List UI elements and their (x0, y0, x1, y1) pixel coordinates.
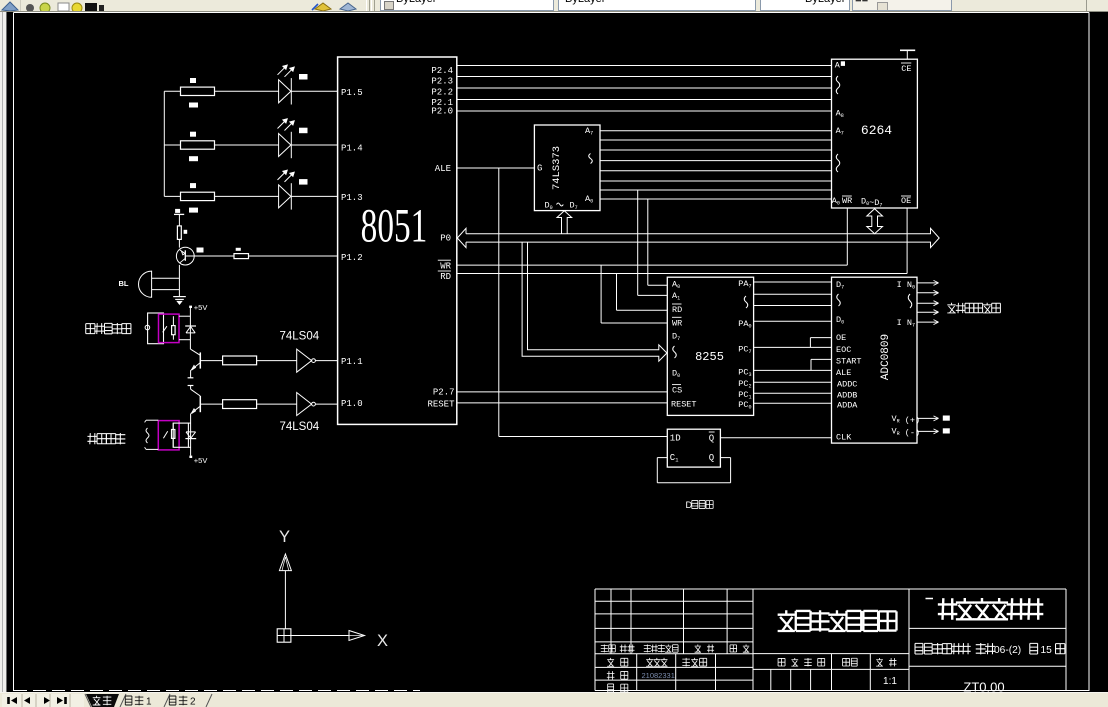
K2 left stub bottom (146, 448, 158, 450)
UCS icon Y axis arrow (279, 554, 291, 571)
wire K2 top (188, 422, 190, 424)
P0 data bus double line (466, 233, 931, 235)
Q3 collector lead (190, 386, 192, 390)
title block left table verticals upper (610, 589, 612, 654)
U5 squiggle D7..D0 (837, 294, 841, 306)
Q3 base bar (199, 396, 201, 412)
wire P2.0 from U1 to U3 (457, 110, 832, 112)
wire analog input IN0 (917, 282, 939, 284)
wire PA7-D7 U4 to U5 (754, 281, 832, 283)
wire PC3 to U5 ALE (754, 369, 832, 371)
K2 coil resistor (172, 430, 175, 439)
svg-text:P2.4: P2.4 (431, 66, 453, 76)
svg-text:RD: RD (440, 272, 451, 282)
UCS icon X axis arrow (291, 635, 349, 637)
wire ALE branch down to U6 1D (498, 168, 500, 437)
LED D3 cathode bar (290, 183, 292, 209)
wire P2.7 to U4 CS (457, 391, 667, 393)
university section lines (909, 627, 1066, 629)
U3 squiggle A12..A8 (836, 76, 840, 94)
buzzer BL body (139, 271, 152, 297)
LED D3 triangle (279, 185, 291, 208)
wire PC0 to U5 ADDA (754, 402, 832, 404)
wire R6 to inverter U7A (257, 360, 297, 362)
resistor R3 value label below (189, 208, 198, 213)
P0 bus arrowhead right end (931, 228, 940, 247)
middle section lines (753, 653, 909, 655)
drawing title duandai jiance yuanlitu (chinese) (778, 610, 795, 631)
university name China University of Mining and Technology (chinese) (938, 598, 957, 620)
resistor R2 (181, 141, 215, 149)
transistor Q2 collector lead (190, 349, 200, 355)
left toolbar sliver (0, 11, 7, 692)
ground symbol (173, 296, 186, 298)
svg-text:15: 15 (1038, 645, 1052, 656)
+5V node for relay K1 (189, 306, 192, 308)
wire A4 from U2 latch to U3 (600, 160, 832, 162)
rail Q3 emitter to +5V (190, 414, 192, 456)
svg-text:VR (+): VR (+) (892, 414, 921, 426)
U2 tilde D0..D7 (557, 203, 564, 206)
resistor R6 (223, 356, 257, 365)
LED D2 emission arrows (278, 120, 294, 131)
svg-text:74LS04: 74LS04 (280, 331, 320, 343)
resistor R1 value label (190, 78, 196, 83)
svg-text:P2.0: P2.0 (431, 107, 453, 117)
wire Q1 base to R5 (185, 255, 234, 257)
parallel interface U4 8255 body (667, 277, 753, 415)
svg-text:BL: BL (119, 279, 129, 288)
wire RD into U4 (617, 309, 668, 311)
D flip-flop U6 body (667, 429, 720, 467)
wire R2 to LED D2 (215, 144, 279, 146)
U3 squiggle A7..A0 (836, 154, 840, 172)
svg-text:CS: CS (672, 386, 682, 396)
svg-text:1:1: 1:1 (883, 676, 897, 687)
U4 squiggle D7..D0 (673, 346, 677, 358)
wire P2.3 from U1 to U3 (457, 76, 832, 78)
overbar before university name (926, 598, 934, 600)
svg-text:1: 1 (146, 696, 152, 707)
svg-text:P1.3: P1.3 (341, 193, 363, 203)
K1 coil resistor (172, 326, 176, 335)
resistor R5 (234, 254, 249, 259)
bus arrow from P0 down into U4 D0-D7 (522, 242, 667, 361)
svg-text:START: START (836, 357, 862, 367)
wire A0 into U4 (648, 284, 668, 286)
svg-text:P1.0: P1.0 (341, 399, 363, 409)
svg-text:8051: 8051 (361, 200, 428, 252)
wire analog input IN7 (917, 321, 939, 323)
svg-text:WR: WR (440, 262, 451, 272)
Q2 emitter lead with arrow (191, 363, 200, 371)
U7B output bubble (312, 402, 316, 406)
R4 value label (184, 230, 188, 234)
row label standardization (chinese) (682, 658, 690, 667)
K2 contact switch (163, 431, 167, 438)
wire RD from U1 (457, 273, 907, 275)
wire PA4-D4 U4 to U5 (754, 293, 832, 295)
flyback diode D5 (185, 438, 196, 440)
svg-text:1D: 1D (670, 434, 681, 444)
Q3 emitter lead with arrow (191, 406, 200, 413)
LED D1 triangle (279, 80, 291, 103)
VCC pull-up on U3 CE (900, 49, 915, 51)
LED D1 designator label (299, 74, 308, 80)
bus arrow from P0 up into U2 D0-D7 (557, 211, 572, 234)
wire WR into U4 (601, 322, 667, 324)
UCS icon origin box (277, 629, 291, 642)
svg-text:21082331: 21082331 (642, 671, 675, 680)
flyback diode D4 (185, 325, 196, 327)
wire analog input IN2 (917, 302, 939, 304)
svg-text:A: A (835, 61, 841, 71)
LED D1 cathode bar (290, 78, 292, 104)
header label change-file-name (chinese) (644, 644, 651, 652)
wire P2.4 from U1 to U3 (457, 65, 832, 67)
svg-text:Q: Q (709, 453, 714, 463)
+5V terminal above R4 (175, 209, 180, 213)
svg-text:X: X (377, 632, 388, 650)
svg-text:6264: 6264 (861, 123, 892, 138)
svg-text:WR: WR (842, 196, 852, 206)
header label biaoji (chinese) (601, 644, 608, 652)
wire K1 bottom to Q2 collector rail (179, 339, 190, 341)
LED D3 emission arrows (278, 171, 294, 182)
wire to resistor R3 (164, 195, 180, 197)
wire branch to U5 OE (809, 338, 811, 348)
wire A0 from U2 latch to U3 (600, 198, 832, 200)
resistor R4 (vertical) (177, 226, 181, 240)
wire A0 tap down (647, 199, 649, 285)
drawing frame top line (14, 12, 1090, 14)
svg-text:CE: CE (901, 64, 911, 74)
wire R3 to LED D3 (215, 195, 279, 197)
LED D2 cathode bar (290, 132, 292, 158)
resistor R7 (223, 400, 257, 409)
relay K1 contact box (148, 313, 164, 344)
title block main dividers (752, 589, 754, 691)
drawing frame left line (13, 13, 15, 692)
college and class line (chinese) (915, 643, 923, 654)
svg-text:P1.5: P1.5 (341, 88, 363, 98)
wire PA3-D3 U4 to U5 (754, 305, 832, 307)
header label chushu (chinese) (620, 645, 627, 653)
ADC U5 ADC0809 body (832, 277, 918, 443)
svg-text:Q: Q (709, 434, 714, 444)
wire buzzer bottom terminal (152, 289, 180, 291)
wire VR- reference (917, 430, 939, 432)
svg-text:+5V: +5V (194, 303, 208, 312)
wire U6 C1 stub (657, 457, 667, 459)
wire ALE from U1 to U2 G (457, 167, 534, 169)
wire buzzer top terminal (152, 277, 180, 279)
P0 bus arrowhead at U1 (457, 228, 466, 247)
U7A output bubble (312, 359, 316, 363)
common bus of LED resistors (163, 91, 165, 196)
wire R4 to Q1 collector (178, 239, 180, 247)
svg-text:ADC0809: ADC0809 (880, 334, 892, 380)
svg-text:Y: Y (279, 528, 290, 546)
wire K2 bottom (188, 446, 190, 448)
inverter U7B 74LS04 triangle (297, 393, 312, 416)
wire WR from U1 (457, 264, 847, 266)
wire into U6 1D (499, 436, 668, 438)
relay K2 coil box (magenta) (158, 421, 179, 450)
svg-text:P2.3: P2.3 (431, 77, 453, 87)
row label sheji design (chinese) (607, 658, 614, 666)
svg-text:P1.4: P1.4 (341, 144, 363, 154)
LED D1 emission arrows (278, 66, 294, 77)
U2 squiggle A7..A0 (589, 154, 593, 164)
wire to resistor R2 (164, 144, 180, 146)
wire A6 from U2 latch to U3 (600, 139, 832, 141)
wire R1 to LED D1 (215, 90, 279, 92)
svg-text:P1.2: P1.2 (341, 253, 363, 263)
wire R7 to inverter U7B (257, 403, 297, 405)
wire WR tap down to U4 (600, 265, 602, 323)
wire branch to U5 START (810, 359, 812, 370)
wire PC7 to U5 EOC (754, 346, 832, 348)
wire LED D2 to U1 P1.4 (291, 144, 337, 146)
K2 left stub top (146, 419, 158, 421)
resistor R3 value label (190, 183, 196, 188)
Q2 base bar (199, 352, 201, 368)
resistor R3 (181, 192, 215, 200)
bottom model/layout tab bar (0, 692, 1108, 707)
SRAM U3 6264 body (832, 59, 918, 208)
resistor R2 value label (190, 132, 196, 137)
header label qianzi (chinese) (695, 644, 701, 652)
svg-text:74LS04: 74LS04 (280, 421, 320, 433)
svg-text:OE: OE (901, 196, 911, 206)
resistor R2 value label below (189, 156, 198, 161)
R5 value label (236, 248, 241, 251)
top properties toolbar (cropped) (0, 0, 1108, 12)
wire P2.2 from U1 to U3 (457, 87, 832, 89)
title block left table horizontal lines (595, 600, 753, 602)
wire PA0-D0 U4 to U5 (754, 320, 832, 322)
transistor Q1 (PNP, circle symbol) (176, 247, 194, 265)
wire LED D1 to U1 P1.5 (291, 90, 337, 92)
wire WR up to U3 WR pin (846, 208, 848, 265)
wire +5V to R4 (178, 214, 180, 226)
inverter U7A 74LS04 triangle (297, 349, 312, 372)
svg-text:2: 2 (190, 696, 196, 707)
wire U6 feedback loop (656, 458, 658, 483)
drawing frame bottom dashed line (14, 690, 420, 692)
+5V node below K2 (189, 456, 192, 458)
label zhongliang weight (chinese) (843, 658, 850, 666)
label speed signal (chinese) (947, 303, 956, 313)
svg-text:P2.2: P2.2 (431, 87, 453, 97)
svg-text:VR (-): VR (-) (892, 427, 921, 439)
svg-text:06-(2): 06-(2) (994, 645, 1021, 656)
svg-text:8255: 8255 (695, 350, 724, 364)
wire VR+ reference (917, 417, 939, 419)
wire RESET from U1 to U4 (457, 402, 667, 404)
svg-text:EOC: EOC (836, 345, 851, 355)
svg-text:ADDA: ADDA (837, 400, 858, 410)
label solenoid valve (chinese) (86, 324, 95, 334)
svg-text:RESET: RESET (427, 400, 455, 410)
title block outer border (595, 588, 1066, 590)
svg-text:ADDC: ADDC (837, 379, 857, 389)
title block left table verticals lower (636, 654, 638, 691)
wire Q3 base to R7 (200, 403, 222, 405)
U4 squiggle PA7..PA0 (744, 296, 748, 308)
wire R5 to U1 P1.2 (249, 255, 338, 257)
K1 contact switch (163, 326, 167, 332)
wire A2 from U2 latch to U3 (600, 180, 832, 182)
K2 squiggle (146, 428, 149, 443)
wire U7A to U1 P1.1 (315, 360, 337, 362)
wire analog input IN1 (917, 292, 939, 294)
K1 terminal circle (145, 325, 150, 330)
wire A7 from U2 latch to U3 (600, 130, 832, 132)
svg-text:OE: OE (836, 333, 846, 343)
relay K1 coil box (magenta) (159, 314, 180, 343)
Q1 designator label (197, 248, 204, 253)
wire A5 from U2 latch to U3 (600, 149, 832, 151)
svg-text:RESET: RESET (671, 400, 697, 410)
svg-text:WR: WR (672, 318, 682, 328)
bus arrow between U3 D0-D7 and P0 bus (double headed) (867, 209, 883, 234)
svg-text:ALE: ALE (435, 164, 451, 174)
header label riqi (chinese) (730, 645, 737, 652)
drawing frame right line (1088, 13, 1090, 692)
label tuyang biaoji (chinese) (778, 658, 785, 666)
wire U7B to U1 P1.0 (315, 403, 337, 405)
wire PC1 to U5 ADDB (754, 392, 832, 394)
svg-text:P1.1: P1.1 (341, 357, 363, 367)
+5V rail through K1 (189, 308, 191, 349)
LED D2 triangle (279, 134, 291, 157)
wire RD tap down to U4 (616, 274, 618, 311)
wire PC2 to U5 ADDC (754, 381, 832, 383)
resistor R1 value label below (189, 103, 198, 108)
wire RD up to U3 OE pin (906, 208, 908, 274)
svg-text:+5V: +5V (194, 456, 208, 465)
wire A1 from U2 latch to U3 (600, 189, 832, 191)
LED D2 designator label (299, 128, 308, 134)
wire U6 Q stub (720, 457, 730, 459)
svg-text:P0: P0 (440, 234, 451, 244)
wire U6 Qbar to U5 CLK (720, 437, 831, 439)
wire K1 top to +5V rail (179, 315, 190, 317)
microcontroller U1 8051 body (338, 57, 457, 424)
wire P2.1 from U1 to U3 (457, 99, 832, 101)
Q3 collector terminal tick (188, 385, 194, 387)
wire to resistor R1 (164, 90, 180, 92)
wire A1 tap down (637, 190, 639, 295)
wire A3 from U2 latch to U3 (600, 170, 832, 172)
wire LED D3 to U1 P1.3 (291, 195, 337, 197)
U5 squiggle IN0..IN7 (908, 294, 912, 308)
LED D3 designator label (299, 179, 308, 185)
svg-text:ADDB: ADDB (837, 390, 857, 400)
Q2 emitter terminal tick (188, 377, 194, 379)
svg-text:P2.7: P2.7 (433, 387, 455, 397)
row label xuehao student no (chinese) (607, 671, 615, 679)
svg-text:RD: RD (672, 305, 682, 315)
wire A1 into U4 (638, 294, 668, 296)
svg-text:74LS373: 74LS373 (551, 146, 563, 190)
label drum motor (chinese) (87, 433, 97, 444)
label bili scale (chinese) (876, 658, 883, 666)
resistor R1 (181, 87, 215, 95)
wire Q2 base to R6 (200, 360, 222, 362)
designer name (chinese) (646, 658, 653, 666)
wire analog input IN3 (917, 311, 939, 313)
svg-text:G: G (537, 163, 542, 173)
latch U2 74LS373 body (534, 125, 600, 211)
svg-text:ALE: ALE (836, 368, 851, 378)
K2 contact box (173, 423, 188, 447)
row label shenhe review (chinese) (608, 684, 614, 692)
svg-text:CLK: CLK (836, 433, 852, 443)
wire Q1 emitter down (178, 265, 180, 297)
